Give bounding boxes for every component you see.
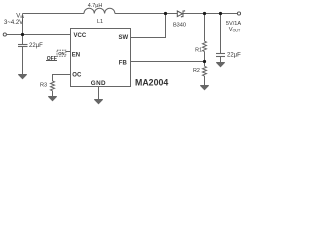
svg-text:B340: B340 [173, 23, 186, 29]
svg-text:EN: EN [72, 53, 80, 59]
svg-text:FB: FB [119, 60, 128, 66]
svg-text:GND: GND [91, 80, 106, 87]
svg-text:22µF: 22µF [29, 43, 43, 49]
svg-text:MA2004: MA2004 [135, 78, 168, 88]
svg-text:VCC: VCC [74, 33, 87, 39]
svg-text:4.7µH: 4.7µH [88, 3, 103, 9]
svg-text:ON: ON [58, 51, 64, 56]
svg-text:OFF: OFF [47, 56, 57, 62]
svg-text:VOUT: VOUT [229, 27, 241, 33]
svg-text:VIN: VIN [16, 13, 24, 19]
svg-text:R2: R2 [193, 68, 200, 74]
svg-text:3~4.2V: 3~4.2V [4, 20, 23, 26]
svg-text:R1: R1 [195, 48, 202, 54]
svg-text:OC: OC [72, 72, 82, 78]
svg-text:R3: R3 [40, 83, 47, 89]
svg-text:L1: L1 [97, 19, 103, 25]
svg-text:SW: SW [119, 35, 129, 41]
svg-text:22µF: 22µF [227, 53, 241, 59]
